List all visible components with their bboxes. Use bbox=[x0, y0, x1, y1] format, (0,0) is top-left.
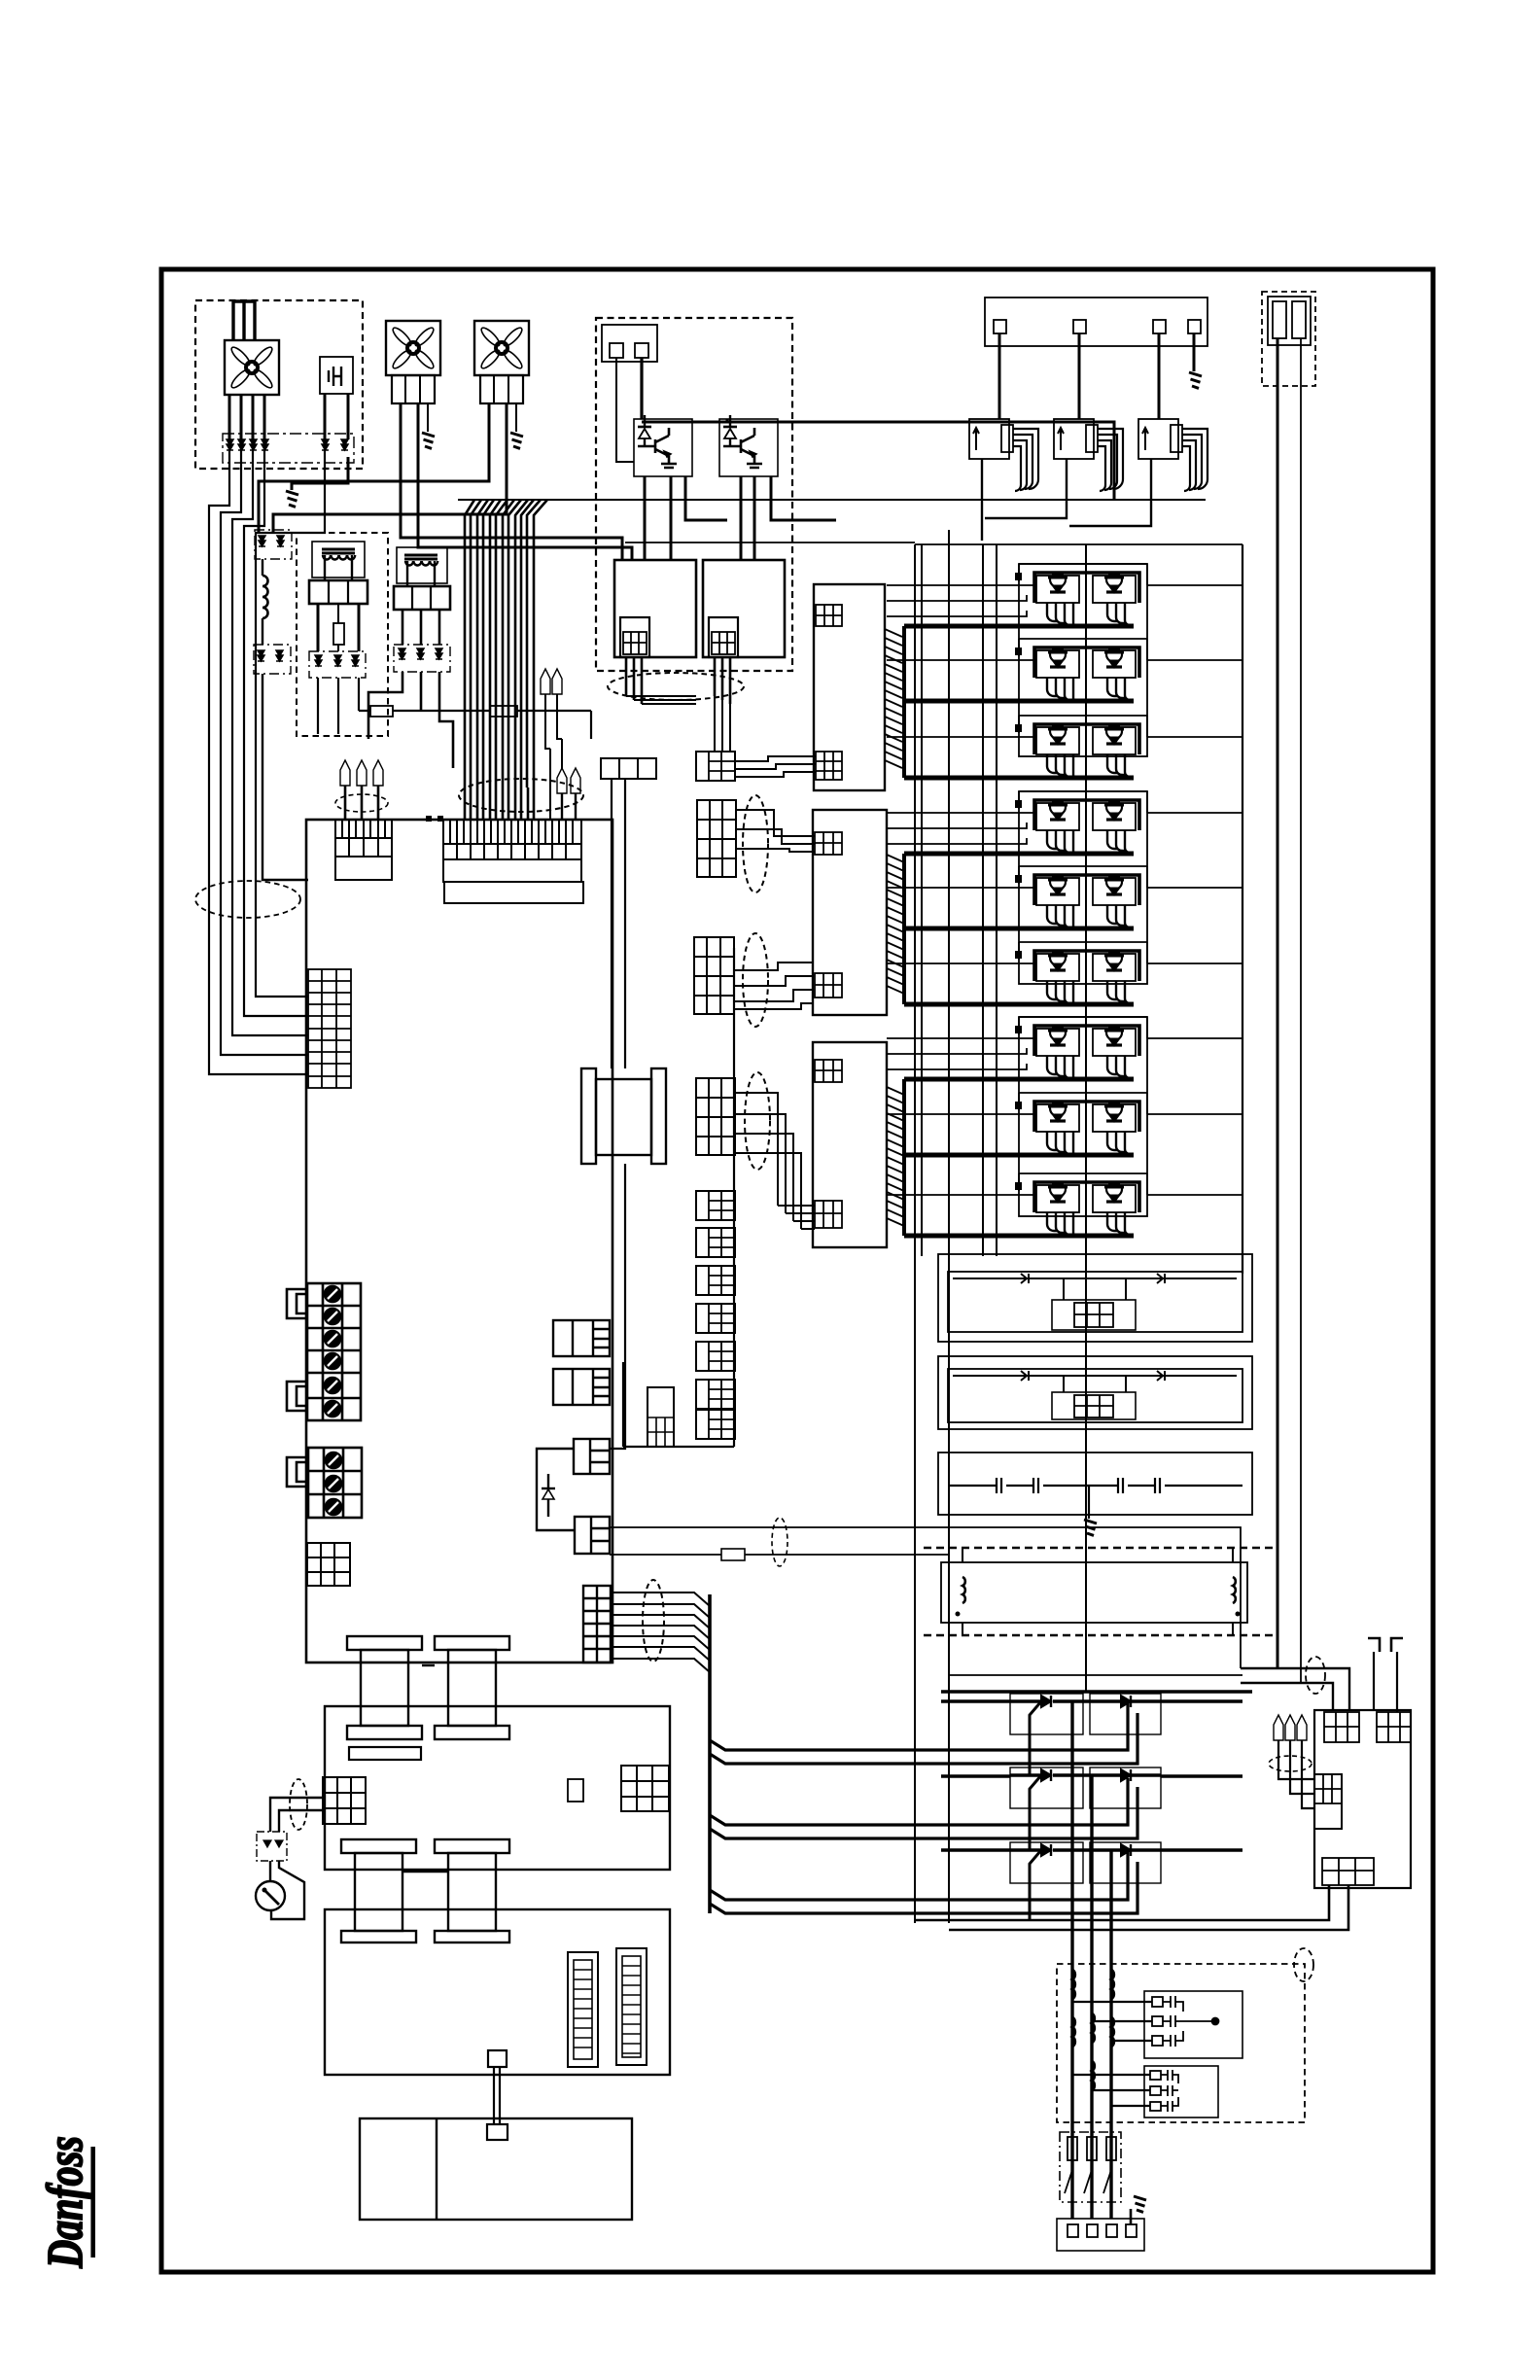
transformer TR3 bbox=[341, 1839, 416, 1942]
nameplate / LCP box bbox=[360, 2118, 632, 2220]
TX1 wires bbox=[318, 604, 359, 651]
transformer TR2 bbox=[435, 1636, 509, 1739]
choke feed wires bbox=[612, 779, 625, 1068]
current sensor T1 bbox=[969, 419, 1038, 491]
tie ellipse under chopper bbox=[608, 673, 744, 700]
long sense wires to right bbox=[610, 1527, 1241, 1668]
cable tie ellipse bbox=[195, 881, 300, 918]
gate driver board V bbox=[813, 810, 904, 1015]
power card outline bbox=[306, 820, 612, 1662]
U row2 bbox=[1015, 639, 1147, 702]
current sensor T3 bbox=[1138, 419, 1207, 491]
thermal switch board 2 bbox=[938, 1356, 1252, 1429]
border frame bbox=[161, 269, 1433, 2272]
transformer TR4 bbox=[435, 1839, 509, 1942]
phase W module group bbox=[1019, 1017, 1147, 1216]
mains terminal box bbox=[1057, 2219, 1144, 2251]
interconnect resistors horizontal bbox=[359, 711, 591, 739]
dc link sense dashed box bbox=[1262, 292, 1315, 386]
main loom horizontal bbox=[458, 499, 1206, 501]
crimp wires into CN2 bbox=[541, 669, 550, 694]
V row2 bbox=[1015, 866, 1147, 929]
hall loop connector C2 bbox=[575, 1517, 610, 1554]
RC suppressor box B bbox=[1144, 2066, 1218, 2117]
gate driver board U bbox=[814, 584, 902, 790]
connector stack column bbox=[696, 752, 735, 781]
fuses bbox=[1067, 2137, 1077, 2160]
resistor on middle wire bbox=[333, 623, 344, 645]
filter dashed enclosure bbox=[1057, 1964, 1305, 2122]
dc sense wires down bbox=[1277, 338, 1279, 1668]
brake chopper enclosure bbox=[596, 318, 792, 671]
magnetics box 2 bbox=[325, 1909, 670, 2075]
board top-right connector bbox=[601, 758, 656, 779]
screw terminal block B1 bbox=[307, 1283, 361, 1420]
U row3 bbox=[1015, 716, 1147, 779]
smps side connector bbox=[1314, 1774, 1342, 1829]
smps output wires bbox=[915, 1885, 1348, 1930]
LCP plug link bbox=[488, 2050, 507, 2067]
brake IGBT module 2 bbox=[719, 415, 778, 476]
capacitor bank bbox=[938, 1452, 1252, 1515]
phase U module group bbox=[1019, 564, 1147, 756]
transformer TX1 bbox=[312, 542, 365, 577]
varistors bbox=[227, 439, 233, 450]
scr gate drops bbox=[1029, 1734, 1032, 1920]
RFI choke dashed area bbox=[924, 1548, 1274, 1635]
DC choke component bbox=[581, 1068, 596, 1164]
sensor dash-dot box bbox=[257, 1832, 287, 1861]
loom tie ellipse bbox=[459, 779, 583, 812]
smps input tips bbox=[1274, 1715, 1283, 1740]
brake wiring bbox=[616, 358, 634, 462]
Danfoss logo bbox=[38, 2136, 93, 2268]
power feed connector C3 bbox=[583, 1586, 611, 1662]
junction dots on board edge bbox=[426, 816, 432, 822]
current sensor T2 bbox=[1054, 419, 1123, 491]
ladder connector 1 bbox=[568, 1952, 598, 2067]
fan M1 wires bbox=[229, 395, 264, 439]
bridge phase wires down bbox=[1072, 1701, 1111, 2219]
varistor box D bbox=[254, 645, 291, 674]
transformer block dashed bbox=[297, 533, 388, 736]
hall sensor loop connector C1 bbox=[574, 1439, 610, 1474]
connector CN1 bbox=[335, 820, 392, 880]
PE wire + ground bbox=[1193, 333, 1196, 371]
fuse/disconnect dash-dot box bbox=[1060, 2132, 1121, 2202]
inductor L1 bbox=[262, 559, 263, 576]
sense connector A2 bbox=[553, 1369, 610, 1405]
spare plate bbox=[349, 1747, 421, 1760]
feed wires to bus bar bbox=[611, 1592, 710, 1672]
screw terminal block B2 bbox=[308, 1448, 362, 1518]
hall loop wire + diode bbox=[537, 1449, 575, 1530]
fan M3 wires bbox=[259, 403, 507, 532]
magnetics box 1 bbox=[325, 1706, 670, 1870]
capacitor box bbox=[320, 357, 353, 394]
CT wires w/ tie bbox=[270, 1798, 324, 1832]
V row1 bbox=[1015, 791, 1147, 855]
SCR row 3 bbox=[1010, 1842, 1161, 1883]
TX2 diode dash-dot box bbox=[394, 645, 450, 672]
transformer TR1 bbox=[347, 1636, 422, 1739]
output terminal strip bbox=[985, 297, 1207, 346]
brake driver box 2 bbox=[703, 560, 785, 657]
bridge dc bus bars bbox=[941, 1701, 1242, 1850]
U row1 bbox=[1015, 564, 1147, 627]
gate feed lines from drivers bbox=[887, 595, 1027, 1069]
sense connector A1 bbox=[553, 1320, 610, 1356]
ground under box bbox=[292, 457, 348, 490]
smps board bbox=[1314, 1710, 1411, 1888]
sensor feed wires bbox=[999, 333, 1159, 419]
emitter group links bbox=[902, 626, 906, 778]
brake terminal box bbox=[602, 325, 657, 362]
thick emitter bus bars under rows bbox=[904, 626, 1134, 1236]
driver connector 2 bbox=[709, 617, 738, 657]
brake driver tails bbox=[626, 657, 730, 704]
line chokes bbox=[1072, 1970, 1114, 2090]
aux connector bbox=[647, 1387, 674, 1447]
connector CN2 wide bbox=[443, 820, 583, 903]
fan M1 supply stubs bbox=[233, 301, 255, 340]
stack tie ellipses bbox=[743, 795, 768, 892]
thermal switch board 1 bbox=[938, 1254, 1252, 1342]
dashed enclosure fan unit bbox=[195, 300, 363, 469]
W row2 bbox=[1015, 1093, 1147, 1156]
small connector lower left bbox=[307, 1543, 350, 1586]
TX2 wires bbox=[402, 610, 439, 645]
stack spine bbox=[623, 948, 734, 1447]
fan wires routing left bbox=[209, 439, 308, 1074]
stack harness wires right bbox=[735, 756, 816, 1229]
smps bottom connector bbox=[1322, 1858, 1374, 1885]
W row1 bbox=[1015, 1017, 1147, 1080]
transformer TX2 bbox=[397, 547, 447, 583]
SCR row 2 bbox=[1010, 1767, 1161, 1808]
fan M2 bbox=[386, 321, 440, 375]
driver connector 1 bbox=[620, 617, 649, 657]
SCR row 1 bbox=[1010, 1694, 1161, 1734]
dc bus lines bbox=[948, 1674, 1242, 1676]
wire from D down bbox=[262, 674, 308, 880]
gate driver board W bbox=[813, 1042, 904, 1247]
mounting bracket bbox=[1368, 1638, 1403, 1652]
smps feed lines bbox=[1241, 1668, 1349, 1710]
svg-text:Danfoss: Danfoss bbox=[38, 2136, 93, 2268]
vertical distribution wires bbox=[915, 530, 1086, 1923]
W row3 bbox=[1015, 1173, 1147, 1237]
fan M1 bbox=[225, 340, 279, 395]
input feed pairs from left bbox=[710, 1703, 1137, 1913]
ribbon bundle 12 wires bbox=[465, 500, 547, 820]
switch blades bbox=[1065, 2170, 1111, 2193]
rpm meter bbox=[269, 1861, 271, 1881]
TX1 diode dash-dot box bbox=[309, 651, 366, 678]
RC suppressor box A bbox=[1144, 1991, 1242, 2058]
fan M2 wires bbox=[401, 403, 632, 560]
row output bus lines to right vertical bus bbox=[1147, 585, 1242, 1195]
left connector stack on board bbox=[308, 969, 351, 1088]
varistor dash-dot box bbox=[223, 434, 354, 463]
fan M3 bbox=[474, 321, 529, 375]
brake driver box 1 bbox=[614, 560, 696, 657]
row gate lines from driver boards bbox=[887, 585, 1034, 1195]
crimp tips into CN1 bbox=[340, 760, 350, 786]
V row3 bbox=[1015, 942, 1147, 1005]
right vertical bus bbox=[1242, 544, 1243, 1274]
brake IGBT module 1 bbox=[634, 415, 692, 476]
phase V module group bbox=[1019, 791, 1147, 984]
ladder connector 2 bbox=[616, 1948, 647, 2065]
varistor box C bbox=[255, 530, 292, 559]
